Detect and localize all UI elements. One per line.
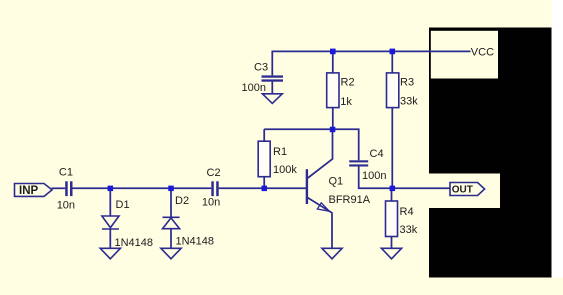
- svg-text:100n: 100n: [242, 82, 266, 94]
- wire R1 top: [263, 129, 265, 141]
- svg-text:C4: C4: [370, 148, 384, 160]
- VCC notch cutout: [431, 31, 498, 79]
- svg-text:OUT: OUT: [452, 185, 473, 196]
- svg-text:1N4148: 1N4148: [115, 237, 154, 249]
- resistor R2: [327, 73, 339, 108]
- capacitor C3: [262, 75, 284, 81]
- node junction D1: [108, 186, 114, 192]
- wire R4 to ground: [391, 237, 393, 249]
- white strip right edge: [552, 0, 563, 278]
- svg-text:100k: 100k: [273, 164, 297, 176]
- svg-text:VCC: VCC: [471, 46, 494, 58]
- svg-text:C3: C3: [254, 62, 268, 74]
- resistor R4: [386, 201, 398, 237]
- ground below Q1 emitter: [322, 248, 342, 258]
- wire C1 to C2: [73, 187, 212, 189]
- ground below D1: [100, 248, 120, 258]
- wire J2 to C4: [333, 129, 359, 160]
- wire D2 drop: [170, 188, 172, 216]
- wire R2 bottom: [332, 108, 334, 130]
- svg-text:33k: 33k: [400, 224, 418, 236]
- ground below D2: [161, 248, 181, 258]
- svg-text:BFR91A: BFR91A: [329, 194, 371, 206]
- node junction D2: [168, 186, 174, 192]
- diode D2: [163, 217, 180, 228]
- wire R1 bottom: [263, 177, 265, 189]
- svg-text:INP: INP: [19, 185, 39, 197]
- wire R3 bottom long: [391, 108, 393, 189]
- blackout rectangle main: [429, 28, 552, 278]
- node junction R2 rail: [330, 49, 336, 55]
- capacitor C2: [211, 181, 218, 196]
- svg-text:R1: R1: [273, 146, 287, 158]
- svg-text:10n: 10n: [202, 197, 220, 209]
- wire emitter to ground: [308, 198, 332, 249]
- svg-text:D2: D2: [175, 195, 189, 207]
- transistor Q1: [307, 169, 329, 211]
- wire R2 top: [332, 51, 334, 72]
- wire collector: [308, 129, 333, 178]
- svg-text:1N4148: 1N4148: [176, 236, 215, 248]
- wire D2 to ground: [170, 229, 172, 248]
- svg-text:Q1: Q1: [329, 176, 344, 188]
- svg-text:R3: R3: [400, 77, 414, 89]
- capacitor C4: [349, 160, 368, 166]
- svg-text:10n: 10n: [57, 199, 75, 211]
- node junction R3 rail: [390, 49, 396, 55]
- node junction R1 bottom: [262, 186, 268, 192]
- svg-text:C1: C1: [59, 167, 73, 179]
- ground below C3: [262, 94, 282, 104]
- svg-text:R4: R4: [400, 206, 414, 218]
- ground below R4: [381, 248, 401, 258]
- wire C3 to ground: [271, 82, 273, 94]
- OUT notch cutout: [429, 174, 500, 209]
- wire R4 top: [391, 188, 393, 201]
- diode D1: [102, 216, 119, 229]
- svg-text:100n: 100n: [362, 170, 386, 182]
- port tag OUT: [450, 183, 485, 196]
- wire C2 to Q1 base: [219, 187, 307, 189]
- wire C4 to out node: [359, 166, 393, 188]
- node junction J2: [330, 127, 336, 133]
- svg-text:1k: 1k: [340, 96, 352, 108]
- resistor R1: [258, 141, 270, 177]
- wire VCC rail: [272, 51, 470, 75]
- wire out node to OUT tag: [392, 187, 450, 189]
- wire R3 top: [391, 51, 393, 72]
- svg-text:C2: C2: [207, 167, 221, 179]
- port tag INP: [15, 184, 53, 198]
- svg-text:D1: D1: [116, 199, 130, 211]
- capacitor C1: [65, 181, 72, 196]
- svg-text:R2: R2: [341, 77, 355, 89]
- resistor R3: [387, 73, 399, 108]
- wire D1 drop: [109, 188, 111, 216]
- node junction OUT: [390, 186, 396, 192]
- wire R1 to node J2: [264, 128, 332, 130]
- wire D1 to ground: [109, 230, 111, 249]
- wire INP to C1: [52, 187, 66, 189]
- svg-text:33k: 33k: [400, 96, 418, 108]
